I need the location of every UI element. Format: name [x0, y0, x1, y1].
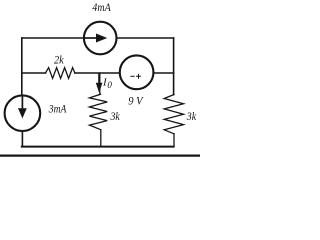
wire middle-left horizontal	[22, 72, 46, 74]
svg-text:0: 0	[107, 80, 112, 90]
resistor 2k zigzag	[46, 68, 75, 79]
wire 3mA source bottom lead	[21, 131, 23, 147]
voltage source 9V circle	[120, 55, 154, 89]
current source 3mA circle	[5, 95, 41, 131]
current source 3mA arrow head	[18, 108, 27, 118]
svg-text:4mA: 4mA	[92, 0, 111, 14]
wire left vertical	[21, 38, 23, 96]
resistor 3k right zigzag	[164, 95, 183, 134]
current source 4mA circle	[84, 22, 117, 55]
svg-text:3mA: 3mA	[48, 102, 67, 116]
voltage source minus sign	[131, 75, 134, 77]
wire top-right horizontal	[117, 37, 173, 39]
wire right vertical	[173, 38, 175, 95]
wire 9V source to right vertical	[154, 72, 174, 74]
current source 3mA arrow shaft	[21, 96, 23, 109]
bottom rule	[0, 155, 200, 157]
voltage source plus sign	[137, 74, 141, 78]
wire top-left horizontal	[22, 37, 83, 39]
wire node I0 branch vertical	[99, 73, 101, 94]
svg-text:2k: 2k	[54, 53, 64, 67]
wire 3k right bottom lead	[173, 134, 175, 147]
svg-text:3k: 3k	[186, 109, 197, 123]
wire bottom horizontal	[22, 146, 174, 148]
wire middle horizontal to 9V source	[75, 72, 119, 74]
current source 4mA arrow head	[96, 34, 107, 43]
arrow I0 head	[96, 83, 103, 93]
wire 3k middle bottom lead	[100, 130, 102, 147]
resistor 3k middle zigzag	[89, 94, 107, 130]
svg-text:9 V: 9 V	[128, 93, 144, 107]
current source 4mA arrow shaft	[84, 37, 97, 39]
arrow I0 shaft	[98, 73, 100, 84]
svg-text:3k: 3k	[110, 109, 121, 123]
